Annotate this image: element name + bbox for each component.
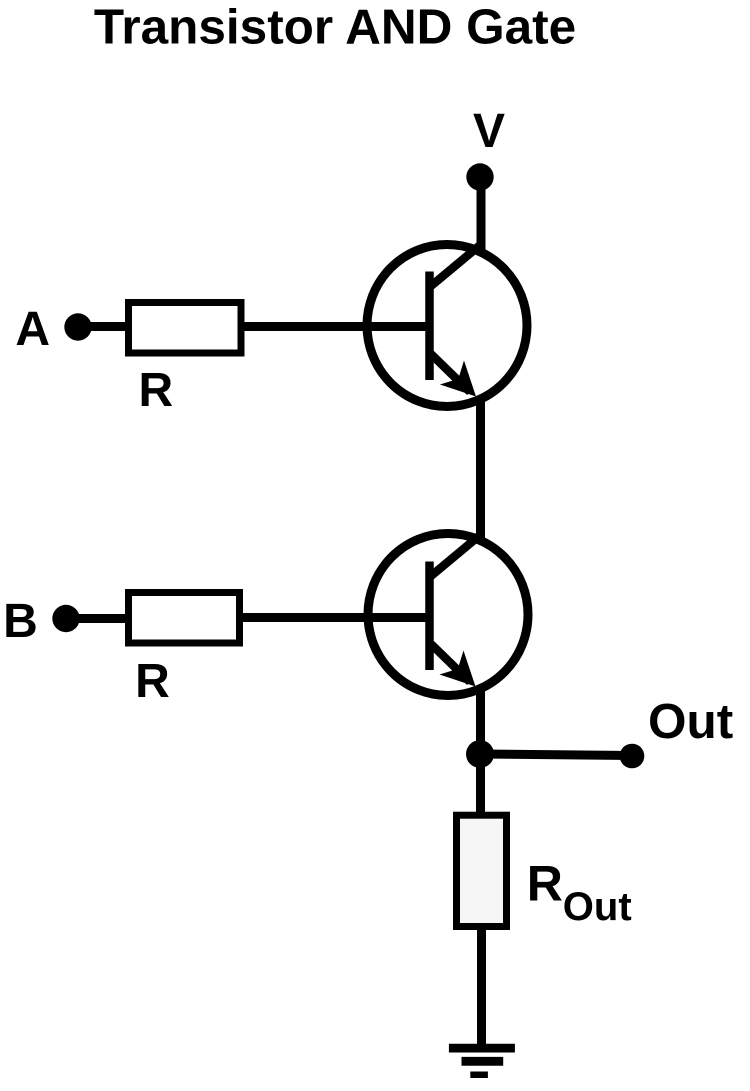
svg-text:Transistor AND Gate: Transistor AND Gate [94, 0, 576, 55]
svg-text:R: R [138, 364, 173, 417]
wire Q2 emitter to output junction [476, 686, 485, 754]
svg-text:ROut: ROut [527, 856, 632, 930]
wire A dot to resistor R1 [78, 322, 128, 331]
node A terminal dot [64, 313, 91, 340]
wire V to Q1 collector [477, 177, 486, 253]
transistor Q2 [368, 534, 528, 699]
node B terminal dot [52, 605, 79, 632]
Q1 body circle [367, 245, 527, 407]
node V terminal dot [466, 163, 493, 190]
ground bar 1 [449, 1044, 515, 1053]
transistor Q1 [367, 244, 527, 409]
wire B dot to resistor R2 [66, 614, 128, 623]
wire ROut to ground [477, 926, 486, 1048]
wire R2 to Q2 base [240, 613, 430, 622]
svg-text:V: V [473, 105, 505, 158]
wire junction to resistor ROut [476, 754, 485, 818]
svg-text:B: B [3, 595, 38, 648]
ground bar 3 [470, 1072, 488, 1079]
ground symbol [449, 1048, 515, 1075]
Q1 collector line [431, 244, 482, 287]
node Out terminal dot [620, 744, 645, 769]
resistor R1 (input A) [129, 303, 242, 354]
Q2 base bar [425, 562, 434, 671]
Q2 emitter line [431, 644, 470, 682]
svg-text:A: A [15, 303, 50, 356]
svg-text:Out: Out [648, 694, 733, 749]
Q2 body circle [368, 534, 528, 696]
junction node dot [466, 740, 494, 768]
wire R1 to Q1 base [241, 322, 430, 331]
resistor ROut [457, 815, 507, 926]
svg-text:R: R [135, 655, 170, 708]
Q2 emitter arrowhead [439, 650, 487, 698]
Q2 collector line [431, 534, 482, 577]
Q1 base bar [425, 272, 434, 381]
resistor R2 (input B) [129, 593, 240, 644]
wire junction to Out terminal [480, 754, 632, 756]
Q1 emitter line [431, 354, 470, 392]
wire Q1 emitter to Q2 collector [476, 396, 485, 538]
Q1 emitter arrowhead [440, 360, 488, 408]
ground bar 2 [462, 1057, 504, 1066]
